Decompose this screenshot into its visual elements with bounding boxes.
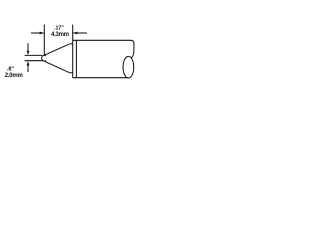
horizontal dimension: right arrowhead xyxy=(73,32,78,35)
svg-text:4.3mm: 4.3mm xyxy=(51,32,69,38)
horizontal dimension: left arrowhead xyxy=(40,32,45,35)
vertical dimension: top arrow shaft xyxy=(27,43,29,51)
vertical dimension: upper extension line xyxy=(25,54,43,56)
svg-text:2.0mm: 2.0mm xyxy=(5,73,23,79)
cone top edge xyxy=(43,44,69,56)
vertical dimension: bottom arrow shaft xyxy=(27,65,29,72)
svg-text:.8”: .8” xyxy=(7,67,15,73)
end-face ellipse xyxy=(123,56,134,78)
horizontal dimension: left arrow shaft xyxy=(31,32,44,34)
cone bottom edge xyxy=(44,61,70,73)
body top edge with rounded right corner xyxy=(73,40,134,57)
body bottom edge xyxy=(73,77,129,79)
horizontal dimension: right arrow shaft xyxy=(73,32,87,34)
tip apex circle xyxy=(42,55,47,61)
collar left vertical line and upper extension line xyxy=(72,25,74,78)
horizontal dimension: left extension line xyxy=(43,25,45,56)
svg-text:.17”: .17” xyxy=(54,26,64,32)
vertical dimension: top arrowhead xyxy=(27,51,30,56)
cone top shoulder ledge xyxy=(70,43,73,45)
vertical dimension: bottom arrowhead xyxy=(27,61,30,66)
vertical dimension: lower extension line xyxy=(25,60,43,62)
cone bottom shoulder ledge xyxy=(70,72,73,74)
collar right vertical line (body left edge) xyxy=(75,40,77,77)
